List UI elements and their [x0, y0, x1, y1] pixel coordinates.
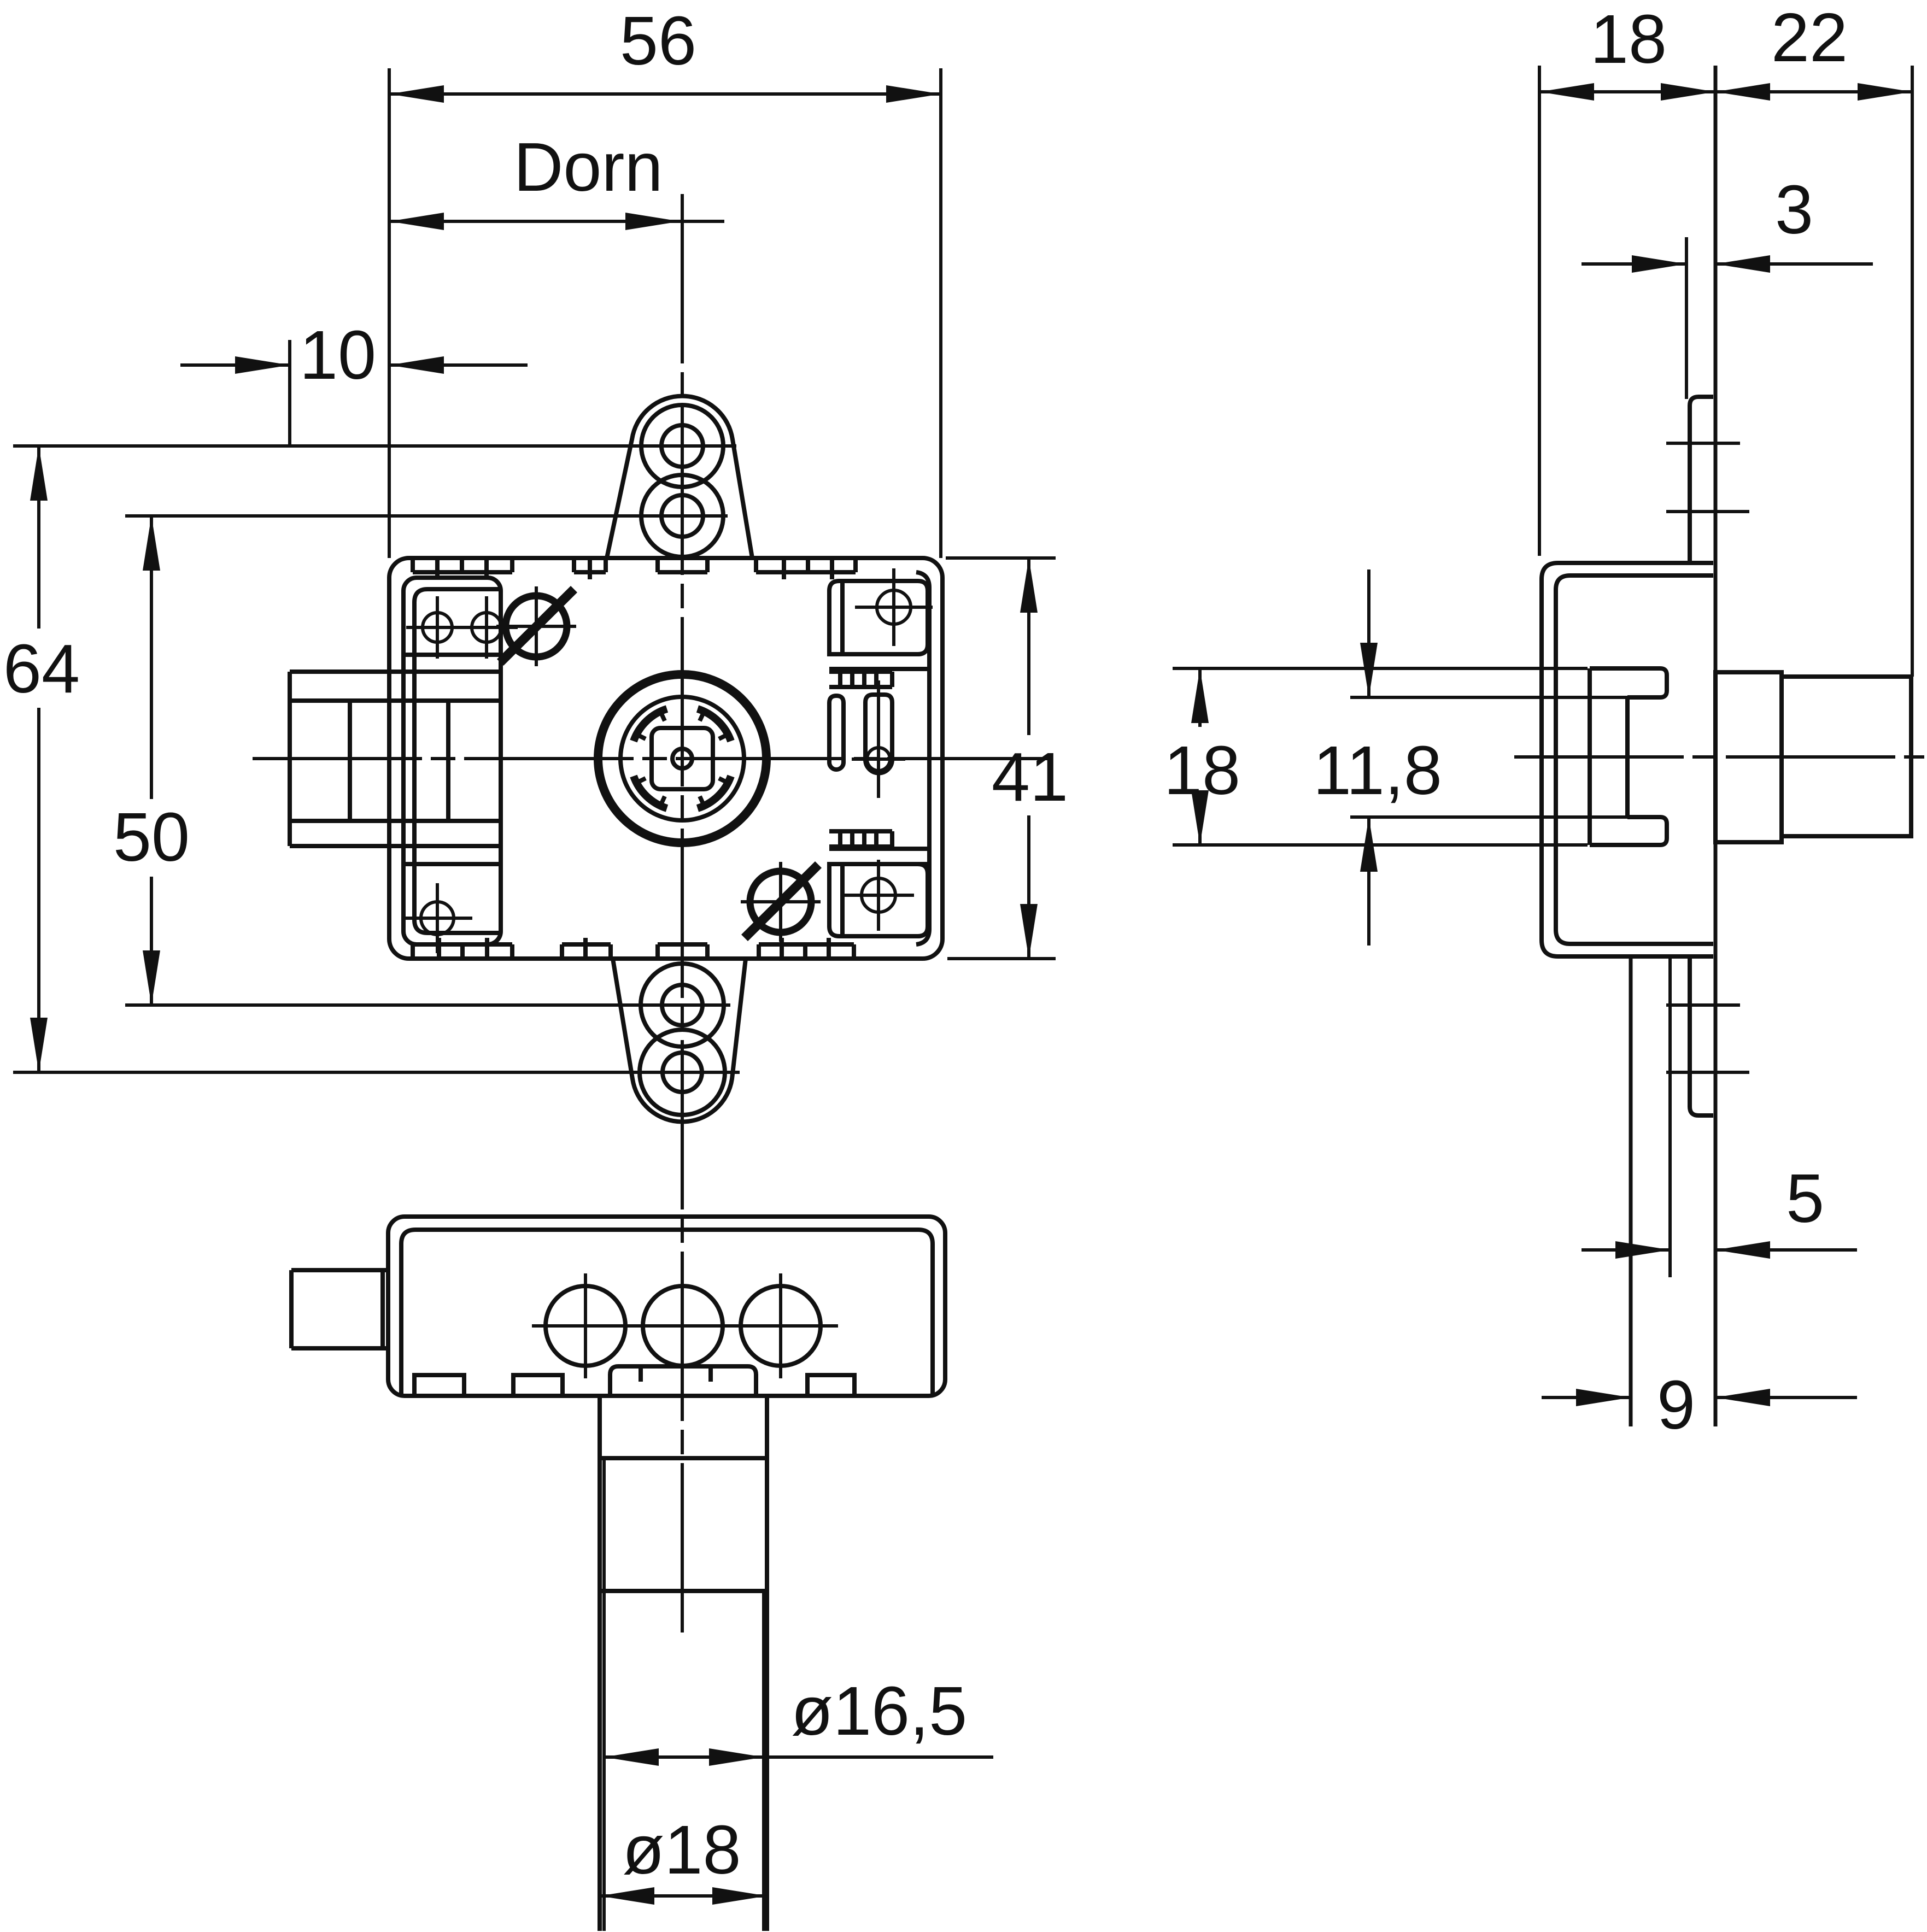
- side view plate left face extension: [1685, 237, 1688, 399]
- dim 3 line right: [1715, 262, 1873, 266]
- dim 22 arrow right: [1858, 83, 1912, 101]
- bottom lobe lower hole: [663, 1053, 702, 1092]
- dim 9 arrow right: [1715, 1389, 1770, 1406]
- hole left strip upper A: [406, 596, 468, 659]
- bottom edge comb band lines: [413, 938, 854, 959]
- left channel strip outer: [403, 578, 501, 944]
- bottom view pad ticks: [641, 1366, 711, 1382]
- dim 50 reference line top: [125, 514, 728, 518]
- dim Dorn arrow right: [625, 213, 680, 230]
- right band lines upper: [829, 669, 928, 687]
- dim 10 arrow left: [235, 356, 290, 374]
- dim 22 arrow left: [1715, 83, 1770, 101]
- side view lower left edge line: [1629, 956, 1633, 1426]
- dim 50 arrow up: [143, 516, 160, 571]
- dim 11,8 line upper: [1367, 569, 1370, 697]
- dim 41 line: [1027, 558, 1030, 959]
- cylinder outer bold circle: [598, 674, 766, 843]
- dim 56 extension lines: [389, 68, 941, 558]
- dim 11,8 line lower: [1367, 817, 1370, 946]
- dim Dorn line: [389, 220, 724, 223]
- right lower plate inner edge: [840, 864, 845, 936]
- bottom view hole circle middle: [643, 1286, 723, 1366]
- left strip divider lines: [403, 655, 501, 864]
- bottom view holes horizontal centerline: [532, 1324, 838, 1328]
- dim 5 line left: [1582, 1248, 1670, 1252]
- side view lower lobe tab: [1690, 956, 1713, 1115]
- bottom view hole left vertical centerline: [584, 1273, 587, 1378]
- bottom view foot tab 2: [513, 1375, 563, 1396]
- svg-text:ø18: ø18: [622, 1811, 741, 1888]
- side view top lobe hole ticks: [1666, 443, 1749, 512]
- bottom view center pad: [610, 1366, 756, 1396]
- dim 5 line right: [1715, 1248, 1857, 1252]
- dim 18-22 extension lines: [1539, 66, 1912, 677]
- side view lower step line: [1668, 956, 1672, 1277]
- dim 41 extension lines: [946, 558, 1056, 959]
- dim 50 reference line bottom: [125, 1003, 730, 1007]
- dim 3 arrow right: [1715, 255, 1770, 273]
- dim 41 arrow down: [1020, 904, 1038, 959]
- dim 18 side arrow up: [1191, 668, 1209, 723]
- right upper plate: [829, 581, 928, 654]
- front view body inner right edge: [916, 572, 929, 944]
- right slot A: [829, 696, 844, 770]
- dim 64 reference line bottom: [13, 1071, 740, 1074]
- hole right plate lower: [843, 860, 914, 931]
- right slot B: [865, 695, 892, 773]
- dim 18 side arrow down: [1191, 790, 1209, 845]
- bottom lobe lower ring: [640, 1030, 725, 1115]
- svg-text:64: 64: [3, 630, 80, 707]
- side view horizontal centerline: [1514, 755, 1924, 759]
- dim 18 side extension lines: [1173, 668, 1588, 845]
- hole right slot small: [852, 732, 905, 786]
- bottom lobe upper ring: [641, 964, 724, 1047]
- cylinder square drive hole: [652, 728, 713, 789]
- top lobe lower hole: [661, 495, 703, 537]
- svg-text:Dorn: Dorn: [513, 128, 663, 205]
- dim 64 line: [37, 446, 40, 1072]
- dim 5 arrow left: [1615, 1241, 1670, 1259]
- latch bolt front view: [290, 672, 403, 846]
- bottom view inner line: [401, 1230, 933, 1396]
- dim 64 arrow up: [30, 446, 48, 501]
- dim 18 arrow left: [1539, 83, 1594, 101]
- side view latch profile: [1590, 668, 1667, 845]
- hole right plate upper: [855, 568, 933, 646]
- svg-text:50: 50: [113, 798, 190, 876]
- dim 56 arrow right: [886, 85, 941, 103]
- dim 50 line: [150, 516, 153, 1005]
- dim 56 line: [389, 92, 941, 96]
- bottom view outer case: [388, 1217, 945, 1396]
- left channel strip inner offset: [414, 589, 501, 933]
- dim diameter 16,5 arrow left: [604, 1748, 659, 1766]
- dim 10 line left: [180, 363, 290, 367]
- svg-text:56: 56: [620, 2, 696, 79]
- dim diameter 18 line: [600, 1894, 767, 1898]
- barrel flange joint line: [600, 1456, 767, 1460]
- svg-text:18: 18: [1590, 1, 1667, 78]
- bottom view latch bolt: [291, 1270, 388, 1348]
- front view body outline: [389, 558, 942, 959]
- dim 5 arrow right: [1715, 1241, 1770, 1259]
- dim diameter 16,5 line: [604, 1755, 993, 1759]
- side view top lobe tab: [1690, 397, 1713, 563]
- barrel mid joint line: [600, 1589, 767, 1593]
- dim 41 arrow up: [1020, 558, 1038, 613]
- dim 10 arrow right: [389, 356, 444, 374]
- dim 56 arrow left: [389, 85, 444, 103]
- svg-text:5: 5: [1786, 1160, 1824, 1237]
- dim 22 line: [1715, 90, 1912, 93]
- side view back plate right face: [1714, 66, 1718, 1426]
- top lobe upper hole: [661, 425, 703, 467]
- dim 64 reference line top: [13, 444, 736, 448]
- right lower plate: [829, 864, 928, 936]
- dim 3 arrow left: [1632, 255, 1686, 273]
- bottom view foot tab 1: [414, 1375, 464, 1396]
- dim Dorn arrow left: [389, 213, 444, 230]
- cylinder center hole: [672, 749, 692, 768]
- bottom view foot tab 3: [807, 1375, 854, 1396]
- svg-text:3: 3: [1775, 171, 1813, 248]
- side view cylinder barrel: [1782, 677, 1911, 836]
- barrel inner wall left: [602, 1458, 606, 1931]
- dim 11,8 extension lines: [1350, 697, 1627, 817]
- right slot B centerline: [877, 680, 880, 798]
- dim 11,8 arrow up: [1360, 817, 1378, 872]
- cylinder inner circle: [620, 697, 744, 820]
- svg-text:41: 41: [992, 738, 1068, 815]
- front view horizontal centerline: [253, 757, 1050, 760]
- side view lower lobe hole ticks: [1666, 1005, 1749, 1072]
- side view case bracket inner: [1556, 576, 1713, 944]
- svg-text:9: 9: [1657, 1366, 1695, 1443]
- top lobe outline: [607, 396, 752, 558]
- dim diameter 18 arrow left: [600, 1887, 654, 1905]
- dim 50 arrow down: [143, 950, 160, 1005]
- dim 18 side line: [1198, 668, 1202, 845]
- screw top-left: [496, 586, 576, 666]
- bottom view hole right vertical centerline: [779, 1273, 782, 1378]
- right comb upper ticks: [840, 672, 892, 687]
- bottom lobe upper hole: [662, 985, 702, 1025]
- dim 9 arrow left: [1576, 1389, 1631, 1406]
- svg-text:ø16,5: ø16,5: [791, 1672, 967, 1749]
- bottom lobe outline: [613, 959, 746, 1121]
- barrel inner wall right: [762, 1591, 765, 1931]
- right comb lower ticks: [840, 831, 892, 847]
- top edge comb band lines: [413, 558, 856, 579]
- barrel outer walls: [600, 1396, 767, 1931]
- dim 10 line right: [389, 363, 528, 367]
- dim diameter 16,5 arrow right: [709, 1748, 764, 1766]
- cylinder cam ring segments: [634, 709, 731, 808]
- dim 18 line top: [1539, 90, 1715, 93]
- dim 10 extension line: [288, 340, 291, 447]
- side view cylinder flange: [1715, 672, 1782, 842]
- svg-text:10: 10: [300, 316, 376, 394]
- dim 3 line left: [1582, 262, 1686, 266]
- dim 9 line left: [1542, 1396, 1631, 1399]
- top lobe upper ring: [641, 405, 723, 487]
- dim 64 arrow down: [30, 1018, 48, 1072]
- hole left strip lower: [402, 883, 472, 953]
- front view vertical centerline: [681, 194, 684, 1637]
- dim 9 line right: [1715, 1396, 1857, 1399]
- top lobe lower ring: [641, 475, 723, 557]
- side view case bracket outer: [1542, 563, 1713, 956]
- screw bottom-right: [741, 862, 821, 942]
- dim diameter 18 arrow right: [712, 1887, 767, 1905]
- dim 18 arrow right: [1661, 83, 1715, 101]
- right upper plate inner edge: [840, 581, 845, 654]
- svg-text:18: 18: [1164, 732, 1240, 809]
- svg-text:22: 22: [1771, 0, 1848, 76]
- svg-text:11,8: 11,8: [1313, 732, 1442, 809]
- bottom view hole circle right: [741, 1286, 821, 1366]
- bottom view hole circle left: [546, 1286, 625, 1366]
- hole left strip upper B: [455, 596, 518, 659]
- right band lines lower: [829, 831, 928, 864]
- dim 11,8 arrow down: [1360, 643, 1378, 697]
